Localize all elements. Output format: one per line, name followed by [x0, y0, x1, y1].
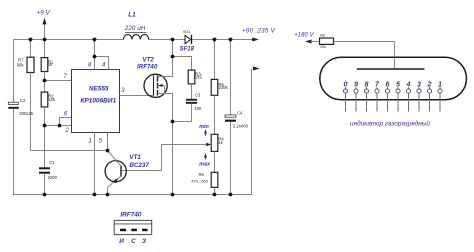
cathode 9 [354, 81, 358, 112]
resistor R8 [320, 33, 395, 48]
svg-text:L1: L1 [128, 12, 136, 19]
svg-text:220k: 220k [219, 85, 229, 90]
svg-text:330x25: 330x25 [19, 111, 33, 116]
svg-text:2200: 2200 [48, 175, 58, 180]
inductor L1 [124, 12, 149, 40]
svg-text:VD1: VD1 [183, 29, 191, 34]
svg-text:VT1: VT1 [130, 154, 142, 161]
resistor R3 [188, 70, 203, 99]
resistor R1 [41, 40, 54, 81]
node dot snubber [171, 55, 175, 59]
wire wiper to VT1 base [121, 145, 207, 171]
svg-text:min: min [199, 124, 209, 130]
resistor R6 [191, 172, 218, 194]
pin 8 [88, 40, 95, 70]
svg-text:2: 2 [65, 128, 70, 134]
svg-text:BC237: BC237 [130, 162, 150, 169]
wire top rail right [192, 39, 232, 41]
svg-text:10k: 10k [48, 97, 56, 102]
svg-text:56k: 56k [17, 63, 25, 68]
junction C4 bottom [229, 193, 233, 197]
pin 4 [95, 57, 109, 70]
wire ground return [251, 69, 253, 196]
node +9V arrow [37, 10, 51, 40]
wire VT2 source [158, 94, 173, 196]
svg-text:И: И [119, 238, 124, 245]
resistor R7 [17, 40, 34, 151]
capacitor C1 [39, 126, 58, 195]
wire top rail mid [149, 39, 186, 41]
node dot pin8/4 [93, 55, 97, 59]
wire R7 to pin5 node [30, 150, 108, 152]
capacitor C4 [225, 40, 249, 195]
max arrow [199, 154, 211, 168]
junction pin1 ground [93, 193, 97, 197]
svg-text:max: max [199, 161, 211, 167]
min arrow [199, 124, 209, 136]
svg-text:+180 V: +180 V [294, 32, 314, 38]
junction R6 bottom [213, 193, 217, 197]
svg-text:КР1006ВИ1: КР1006ВИ1 [80, 98, 116, 105]
wire C3 to source [173, 121, 192, 123]
svg-text:C2: C2 [20, 98, 26, 103]
junction pin6 bracket [58, 124, 62, 128]
svg-text:+90..235 V: +90..235 V [242, 28, 276, 35]
svg-text:C1: C1 [49, 160, 55, 165]
svg-text:C4: C4 [237, 111, 243, 116]
wire anode lead [394, 42, 396, 69]
svg-text:R6: R6 [199, 172, 205, 177]
capacitor C3 [186, 92, 202, 121]
junction drain rail [171, 38, 175, 42]
wire top rail left [13, 39, 124, 41]
nixie tube outline [320, 57, 467, 100]
cathode 7 [375, 81, 380, 112]
svg-text:IRF740: IRF740 [137, 64, 158, 71]
junction R7 top [29, 38, 33, 42]
junction C4 top [229, 38, 233, 42]
node dot C3/source [171, 120, 175, 124]
wire left rail lower [13, 109, 15, 195]
capacitor C2 [8, 98, 33, 116]
wire bottom rail [13, 194, 252, 196]
svg-text:2.2x400: 2.2x400 [233, 123, 249, 128]
IC NE555 timer (КР1006ВИ1) [72, 70, 120, 133]
junction pin8 rail [93, 38, 97, 42]
cathode 4 [406, 81, 411, 112]
pin 3 [120, 88, 154, 96]
wire snubber stub [173, 57, 192, 71]
ground return arrow [253, 67, 260, 71]
cathode 2 [427, 81, 432, 112]
svg-text:220 uH: 220 uH [124, 25, 146, 32]
anode bar [357, 68, 425, 70]
junction C1 bottom [43, 193, 47, 197]
wire pin2 node [45, 125, 72, 127]
pin 1 [88, 133, 94, 196]
transistor VT2 IRF740 [137, 56, 167, 97]
svg-text:2: 2 [427, 81, 432, 89]
svg-text:индикатор газоразрядный: индикатор газоразрядный [350, 119, 430, 127]
wire pin6 bracket [60, 118, 72, 126]
cathode 8 [364, 81, 368, 112]
cathode 1 [438, 81, 442, 112]
svg-text:NE555: NE555 [89, 86, 109, 93]
svg-text:2k2: 2k2 [195, 75, 202, 80]
cathode 6 [385, 81, 389, 112]
wire output arrow +90..235V [231, 28, 276, 42]
cathode 5 [396, 81, 401, 112]
svg-text:VT2: VT2 [143, 56, 155, 63]
svg-text:470...560: 470...560 [191, 179, 208, 184]
svg-text:З: З [142, 238, 146, 245]
svg-text:1: 1 [88, 139, 91, 145]
resistor R5 [211, 40, 228, 135]
IRF740 pinout [114, 212, 152, 246]
cathode 3 [417, 81, 421, 112]
svg-text:R8: R8 [320, 33, 325, 37]
node +180V arrow [294, 32, 319, 43]
wire left rail [13, 39, 15, 102]
resistor R2 [41, 81, 56, 126]
svg-text:+9 V: +9 V [37, 10, 51, 17]
svg-text:IRF740: IRF740 [120, 212, 141, 219]
transistor VT1 BC237 [105, 151, 149, 196]
node dot pin5/VT1 [106, 149, 110, 153]
diode VD1 [180, 29, 195, 52]
svg-text:20k: 20k [320, 45, 326, 49]
svg-text:4: 4 [406, 81, 411, 89]
svg-text:С: С [131, 238, 136, 245]
cathode 0 [343, 81, 347, 112]
junction VT1 emitter ground [106, 193, 110, 197]
junction VT2 source ground [171, 193, 175, 197]
junction R2 bottom pin2 [43, 124, 47, 128]
pin 5 [99, 133, 108, 151]
wire pin7 [45, 80, 72, 82]
svg-text:100: 100 [194, 106, 202, 111]
junction R1 top [43, 38, 47, 42]
wire VT2 drain [158, 40, 173, 77]
svg-text:C3: C3 [195, 92, 201, 97]
junction R5 top [213, 38, 217, 42]
svg-text:SF18: SF18 [180, 46, 195, 52]
potentiometer R4 [206, 134, 224, 172]
node dot R1/R2 pin7 [43, 79, 47, 83]
